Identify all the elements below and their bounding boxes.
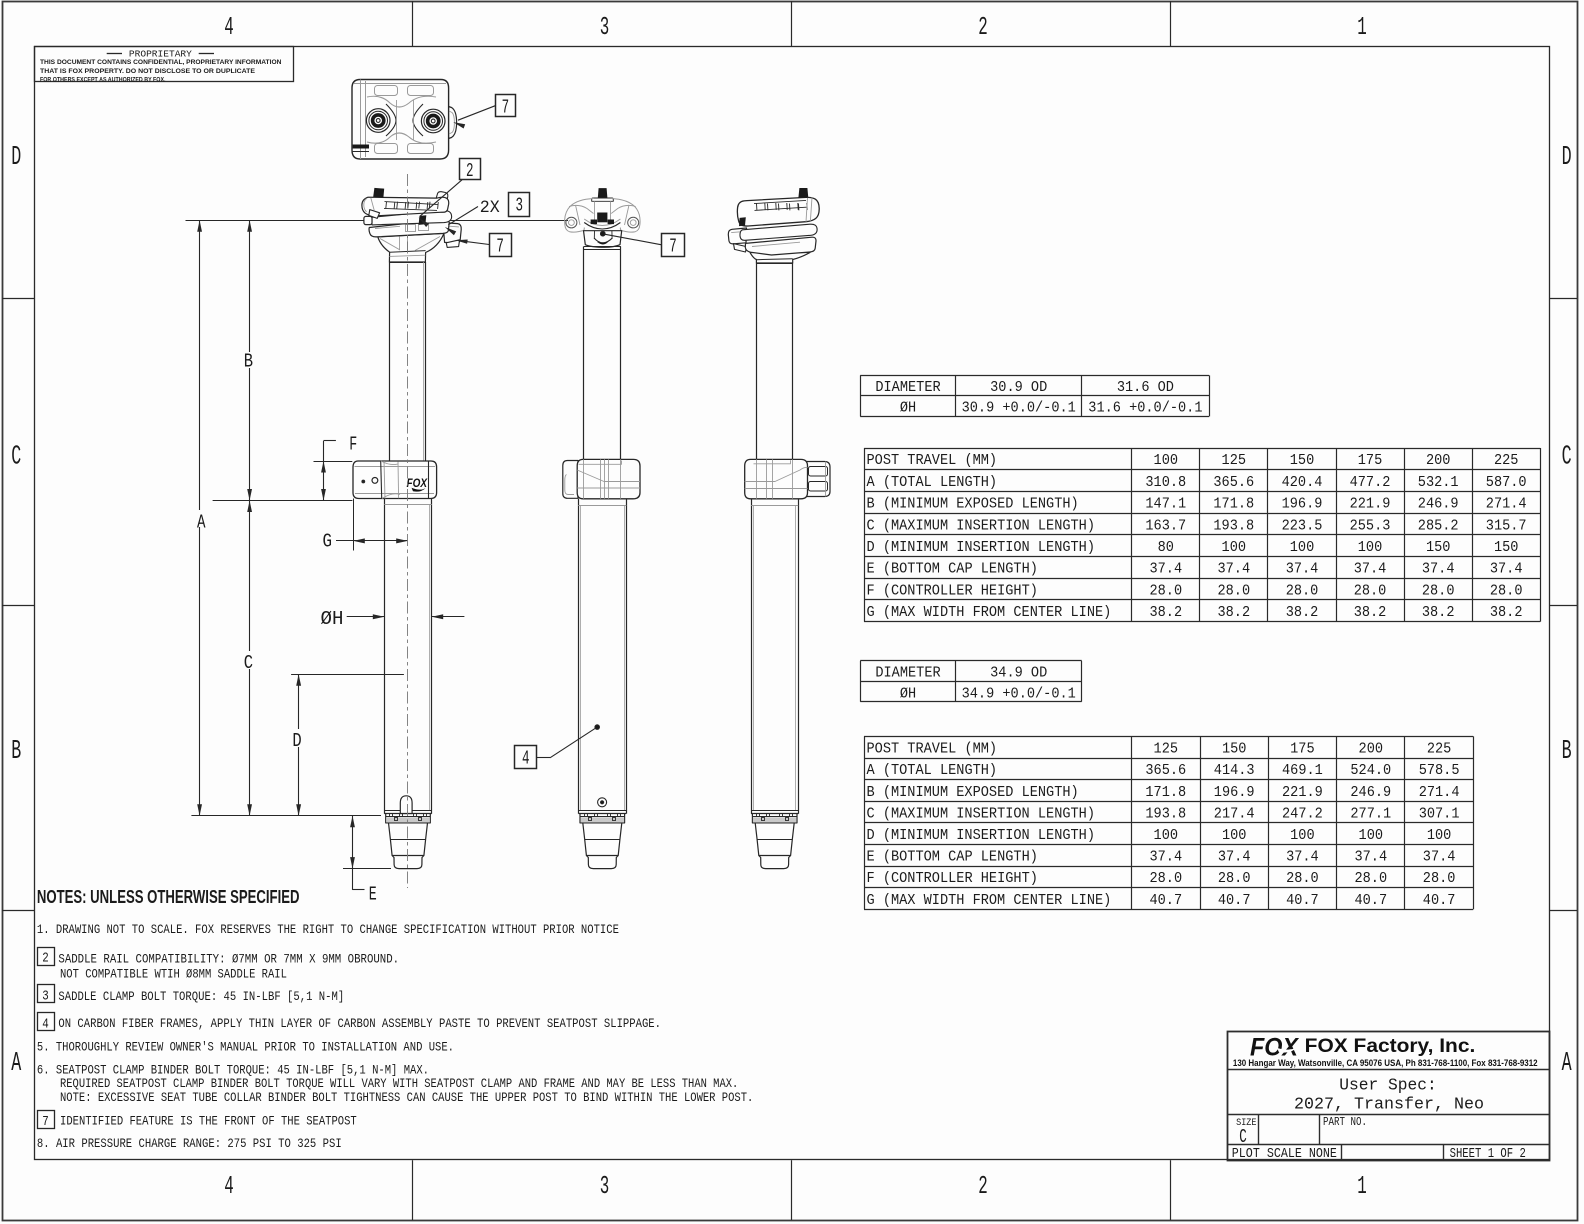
svg-text:1: 1	[1357, 12, 1367, 42]
svg-text:247.2: 247.2	[1282, 805, 1323, 822]
svg-text:80: 80	[1158, 539, 1174, 556]
svg-text:2: 2	[42, 952, 49, 967]
svg-text:DIAMETER: DIAMETER	[875, 665, 940, 682]
svg-text:196.9: 196.9	[1282, 496, 1323, 513]
svg-text:B: B	[11, 737, 21, 767]
svg-text:User Spec:: User Spec:	[1339, 1075, 1437, 1094]
svg-text:40.7: 40.7	[1355, 892, 1388, 909]
svg-text:100: 100	[1222, 827, 1247, 844]
svg-text:D (MINIMUM INSERTION LENGTH): D (MINIMUM INSERTION LENGTH)	[867, 539, 1096, 556]
svg-text:37.4: 37.4	[1423, 849, 1456, 866]
svg-text:7: 7	[42, 1115, 49, 1130]
svg-text:NOTE: EXCESSIVE SEAT TUBE COLL: NOTE: EXCESSIVE SEAT TUBE COLLAR BINDER …	[60, 1090, 753, 1105]
svg-text:193.8: 193.8	[1213, 517, 1254, 534]
svg-text:37.4: 37.4	[1218, 849, 1251, 866]
svg-text:FOX Factory, Inc.: FOX Factory, Inc.	[1305, 1035, 1476, 1057]
svg-text:31.6 +0.0/-0.1: 31.6 +0.0/-0.1	[1088, 400, 1202, 417]
svg-text:7: 7	[496, 235, 504, 257]
svg-text:30.9 OD: 30.9 OD	[990, 379, 1047, 396]
svg-text:A (TOTAL LENGTH): A (TOTAL LENGTH)	[867, 762, 998, 779]
svg-text:100: 100	[1427, 827, 1452, 844]
svg-text:C: C	[244, 652, 253, 674]
svg-text:100: 100	[1359, 827, 1384, 844]
svg-text:28.0: 28.0	[1423, 870, 1456, 887]
svg-text:A (TOTAL LENGTH): A (TOTAL LENGTH)	[867, 474, 998, 491]
svg-text:125: 125	[1222, 452, 1247, 469]
svg-text:37.4: 37.4	[1150, 561, 1183, 578]
svg-text:ØH: ØH	[900, 400, 916, 417]
svg-text:34.9 OD: 34.9 OD	[990, 665, 1047, 682]
svg-text:28.0: 28.0	[1354, 582, 1387, 599]
svg-text:F (CONTROLLER HEIGHT): F (CONTROLLER HEIGHT)	[867, 870, 1038, 887]
svg-text:150: 150	[1290, 452, 1315, 469]
svg-text:100: 100	[1358, 539, 1383, 556]
svg-text:246.9: 246.9	[1418, 496, 1459, 513]
svg-text:E: E	[369, 883, 377, 905]
svg-text:2X: 2X	[480, 198, 500, 218]
svg-text:163.7: 163.7	[1145, 517, 1186, 534]
svg-text:SADDLE RAIL COMPATIBILITY: Ø7M: SADDLE RAIL COMPATIBILITY: Ø7MM OR 7MM X…	[58, 951, 399, 966]
svg-text:578.5: 578.5	[1419, 762, 1460, 779]
svg-text:4: 4	[42, 1017, 49, 1032]
svg-text:28.0: 28.0	[1422, 582, 1455, 599]
svg-text:37.4: 37.4	[1355, 849, 1388, 866]
svg-text:100: 100	[1290, 539, 1315, 556]
svg-text:A: A	[197, 511, 206, 533]
svg-text:246.9: 246.9	[1350, 784, 1391, 801]
svg-text:271.4: 271.4	[1486, 496, 1527, 513]
svg-text:469.1: 469.1	[1282, 762, 1323, 779]
svg-text:7: 7	[669, 235, 677, 257]
svg-text:30.9 +0.0/-0.1: 30.9 +0.0/-0.1	[962, 400, 1076, 417]
svg-text:365.6: 365.6	[1213, 474, 1254, 491]
svg-text:285.2: 285.2	[1418, 517, 1459, 534]
svg-text:307.1: 307.1	[1419, 805, 1460, 822]
svg-text:POST TRAVEL (MM): POST TRAVEL (MM)	[867, 741, 998, 758]
svg-text:THAT IS FOX PROPERTY. DO NOT: THAT IS FOX PROPERTY. DO NOT DISCLOSE TO…	[40, 68, 256, 75]
svg-text:3: 3	[42, 989, 49, 1004]
svg-text:DIAMETER: DIAMETER	[875, 379, 940, 396]
svg-text:28.0: 28.0	[1218, 870, 1251, 887]
svg-text:A: A	[1562, 1049, 1572, 1079]
svg-text:532.1: 532.1	[1418, 474, 1459, 491]
svg-text:PART NO.: PART NO.	[1323, 1115, 1367, 1129]
svg-text:REQUIRED SEATPOST CLAMP BINDER: REQUIRED SEATPOST CLAMP BINDER BOLT TORQ…	[60, 1076, 738, 1091]
svg-text:587.0: 587.0	[1486, 474, 1527, 491]
svg-text:150: 150	[1494, 539, 1519, 556]
svg-text:G: G	[323, 531, 333, 553]
svg-text:310.8: 310.8	[1145, 474, 1186, 491]
svg-text:G (MAX WIDTH FROM CENTER LINE): G (MAX WIDTH FROM CENTER LINE)	[867, 604, 1112, 621]
svg-text:100: 100	[1154, 452, 1179, 469]
svg-text:150: 150	[1426, 539, 1451, 556]
svg-text:28.0: 28.0	[1286, 870, 1319, 887]
svg-text:F: F	[349, 433, 357, 455]
svg-text:C (MAXIMUM INSERTION LENGTH): C (MAXIMUM INSERTION LENGTH)	[867, 517, 1096, 534]
svg-text:NOTES: UNLESS OTHERWISE SPECIF: NOTES: UNLESS OTHERWISE SPECIFIED	[37, 886, 300, 907]
svg-text:225: 225	[1494, 452, 1519, 469]
svg-text:THIS DOCUMENT CONTAINS CONFIDE: THIS DOCUMENT CONTAINS CONFIDENTIAL, PRO…	[40, 59, 282, 66]
svg-text:4: 4	[522, 748, 530, 770]
svg-text:40.7: 40.7	[1218, 892, 1251, 909]
svg-text:38.2: 38.2	[1218, 604, 1251, 621]
svg-text:221.9: 221.9	[1282, 784, 1323, 801]
svg-text:37.4: 37.4	[1150, 849, 1183, 866]
svg-text:PLOT SCALE NONE: PLOT SCALE NONE	[1232, 1147, 1337, 1162]
svg-text:477.2: 477.2	[1350, 474, 1391, 491]
svg-text:POST TRAVEL (MM): POST TRAVEL (MM)	[867, 452, 998, 469]
svg-text:2027, Transfer, Neo: 2027, Transfer, Neo	[1294, 1095, 1484, 1114]
svg-text:365.6: 365.6	[1145, 762, 1186, 779]
svg-text:1. DRAWING NOT TO SCALE. FOX R: 1. DRAWING NOT TO SCALE. FOX RESERVES TH…	[37, 922, 619, 937]
svg-text:200: 200	[1359, 741, 1384, 758]
svg-text:225: 225	[1427, 741, 1452, 758]
svg-text:100: 100	[1222, 539, 1247, 556]
svg-text:315.7: 315.7	[1486, 517, 1527, 534]
svg-text:B (MINIMUM EXPOSED LENGTH): B (MINIMUM EXPOSED LENGTH)	[867, 496, 1079, 513]
svg-text:2: 2	[466, 160, 474, 182]
svg-text:B: B	[244, 350, 253, 372]
svg-text:A: A	[11, 1049, 21, 1079]
svg-text:ON CARBON FIBER FRAMES, APPLY: ON CARBON FIBER FRAMES, APPLY THIN LAYER…	[58, 1016, 661, 1031]
svg-text:4: 4	[224, 12, 234, 42]
svg-text:277.1: 277.1	[1350, 805, 1391, 822]
svg-text:NOT COMPATIBLE WTIH Ø8MM SADDL: NOT COMPATIBLE WTIH Ø8MM SADDLE RAIL	[60, 966, 287, 981]
svg-text:SADDLE CLAMP BOLT TORQUE: 45 I: SADDLE CLAMP BOLT TORQUE: 45 IN-LBF [5,1…	[58, 989, 344, 1004]
svg-text:420.4: 420.4	[1282, 474, 1323, 491]
svg-text:255.3: 255.3	[1350, 517, 1391, 534]
svg-text:8. AIR PRESSURE CHARGE RANGE:: 8. AIR PRESSURE CHARGE RANGE: 275 PSI TO…	[37, 1136, 342, 1151]
svg-text:150: 150	[1222, 741, 1247, 758]
svg-text:28.0: 28.0	[1150, 870, 1183, 887]
svg-text:217.4: 217.4	[1214, 805, 1255, 822]
svg-text:40.7: 40.7	[1286, 892, 1319, 909]
svg-text:D: D	[11, 143, 21, 173]
svg-text:28.0: 28.0	[1150, 582, 1183, 599]
svg-text:221.9: 221.9	[1350, 496, 1391, 513]
svg-text:IDENTIFIED FEATURE IS THE FRON: IDENTIFIED FEATURE IS THE FRONT OF THE S…	[60, 1114, 357, 1129]
svg-text:147.1: 147.1	[1145, 496, 1186, 513]
svg-text:37.4: 37.4	[1490, 561, 1523, 578]
svg-text:37.4: 37.4	[1422, 561, 1455, 578]
svg-text:C (MAXIMUM INSERTION LENGTH): C (MAXIMUM INSERTION LENGTH)	[867, 805, 1096, 822]
svg-text:D: D	[1562, 143, 1572, 173]
svg-text:40.7: 40.7	[1423, 892, 1456, 909]
svg-text:5. THOROUGHLY REVIEW OWNER'S M: 5. THOROUGHLY REVIEW OWNER'S MANUAL PRIO…	[37, 1040, 454, 1055]
svg-text:34.9 +0.0/-0.1: 34.9 +0.0/-0.1	[962, 685, 1076, 702]
svg-text:28.0: 28.0	[1355, 870, 1388, 887]
svg-text:100: 100	[1154, 827, 1179, 844]
svg-text:100: 100	[1290, 827, 1315, 844]
svg-text:28.0: 28.0	[1218, 582, 1251, 599]
svg-text:E (BOTTOM CAP LENGTH): E (BOTTOM CAP LENGTH)	[867, 849, 1038, 866]
svg-text:171.8: 171.8	[1213, 496, 1254, 513]
svg-text:193.8: 193.8	[1145, 805, 1186, 822]
svg-text:40.7: 40.7	[1150, 892, 1183, 909]
svg-text:1: 1	[1357, 1171, 1367, 1201]
svg-text:271.4: 271.4	[1419, 784, 1460, 801]
svg-text:ØH: ØH	[321, 608, 344, 630]
svg-text:37.4: 37.4	[1286, 849, 1319, 866]
svg-text:7: 7	[502, 96, 510, 118]
svg-text:38.2: 38.2	[1490, 604, 1523, 621]
svg-text:38.2: 38.2	[1150, 604, 1183, 621]
svg-text:414.3: 414.3	[1214, 762, 1255, 779]
svg-text:524.0: 524.0	[1350, 762, 1391, 779]
svg-text:223.5: 223.5	[1282, 517, 1323, 534]
svg-text:31.6 OD: 31.6 OD	[1117, 379, 1174, 396]
svg-text:3: 3	[600, 12, 610, 42]
svg-text:28.0: 28.0	[1286, 582, 1319, 599]
svg-text:E (BOTTOM CAP LENGTH): E (BOTTOM CAP LENGTH)	[867, 561, 1038, 578]
svg-text:38.2: 38.2	[1422, 604, 1455, 621]
svg-text:D: D	[292, 730, 301, 752]
svg-text:196.9: 196.9	[1214, 784, 1255, 801]
svg-text:171.8: 171.8	[1145, 784, 1186, 801]
svg-text:C: C	[11, 442, 21, 472]
svg-text:37.4: 37.4	[1286, 561, 1319, 578]
svg-text:C: C	[1239, 1126, 1247, 1148]
svg-text:D (MINIMUM INSERTION LENGTH): D (MINIMUM INSERTION LENGTH)	[867, 827, 1096, 844]
svg-text:SHEET 1 OF 2: SHEET 1 OF 2	[1450, 1147, 1526, 1162]
svg-text:ØH: ØH	[900, 685, 916, 702]
svg-text:200: 200	[1426, 452, 1451, 469]
svg-text:37.4: 37.4	[1218, 561, 1251, 578]
svg-text:3: 3	[600, 1171, 610, 1201]
svg-text:4: 4	[224, 1171, 234, 1201]
svg-text:38.2: 38.2	[1354, 604, 1387, 621]
svg-text:175: 175	[1358, 452, 1383, 469]
svg-text:38.2: 38.2	[1286, 604, 1319, 621]
svg-text:B: B	[1562, 737, 1572, 767]
svg-text:FOR OTHERS EXCEPT AS AUTHORIZE: FOR OTHERS EXCEPT AS AUTHORIZED BY FOX.	[40, 76, 166, 83]
svg-text:28.0: 28.0	[1490, 582, 1523, 599]
svg-text:3: 3	[515, 195, 523, 217]
svg-text:B (MINIMUM EXPOSED LENGTH): B (MINIMUM EXPOSED LENGTH)	[867, 784, 1079, 801]
svg-text:175: 175	[1290, 741, 1315, 758]
svg-text:F (CONTROLLER HEIGHT): F (CONTROLLER HEIGHT)	[867, 582, 1038, 599]
svg-text:125: 125	[1154, 741, 1179, 758]
svg-text:C: C	[1562, 442, 1572, 472]
svg-text:G (MAX WIDTH FROM CENTER LINE): G (MAX WIDTH FROM CENTER LINE)	[867, 892, 1112, 909]
svg-text:37.4: 37.4	[1354, 561, 1387, 578]
svg-text:2: 2	[978, 12, 988, 42]
svg-text:FOX: FOX	[407, 476, 428, 490]
svg-text:130 Hangar Way, Watsonville, C: 130 Hangar Way, Watsonville, CA 95076 US…	[1233, 1058, 1538, 1068]
svg-text:2: 2	[978, 1171, 988, 1201]
